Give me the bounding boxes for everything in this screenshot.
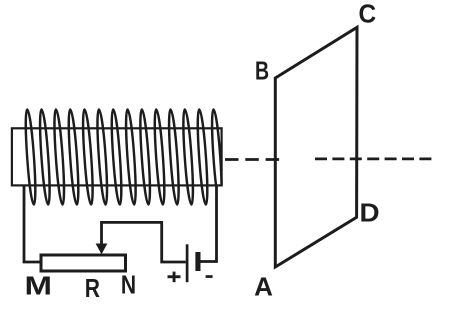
svg-text:N: N <box>121 271 136 300</box>
wire: wiper to battery positive plate <box>102 222 186 262</box>
label + (battery) <box>168 272 181 283</box>
coil L1 turns (14 slanted loops) <box>24 110 224 205</box>
svg-text:A: A <box>254 272 273 302</box>
wire: left lead from coil down to rheostat <box>24 185 42 262</box>
battery positive plate (long thin) <box>186 244 189 282</box>
wire: battery negative to right lead up to coil <box>201 185 217 261</box>
wiper arrow onto rheostat <box>96 244 108 255</box>
battery negative plate (short thick) <box>195 252 200 271</box>
svg-text:R: R <box>85 275 100 304</box>
dashed axis (left segment) <box>225 158 280 161</box>
dashed axis (right segment through loop) <box>315 158 431 161</box>
svg-text:M: M <box>24 272 51 301</box>
label - (battery) <box>206 275 213 278</box>
svg-text:B: B <box>255 56 269 85</box>
resistor R (rheostat box M-N) <box>41 255 126 271</box>
svg-text:C: C <box>358 0 376 29</box>
svg-text:D: D <box>360 198 380 227</box>
loop ABCD (rectangular coil in perspective) <box>275 27 357 267</box>
solenoid core (rectangle) <box>12 128 222 185</box>
